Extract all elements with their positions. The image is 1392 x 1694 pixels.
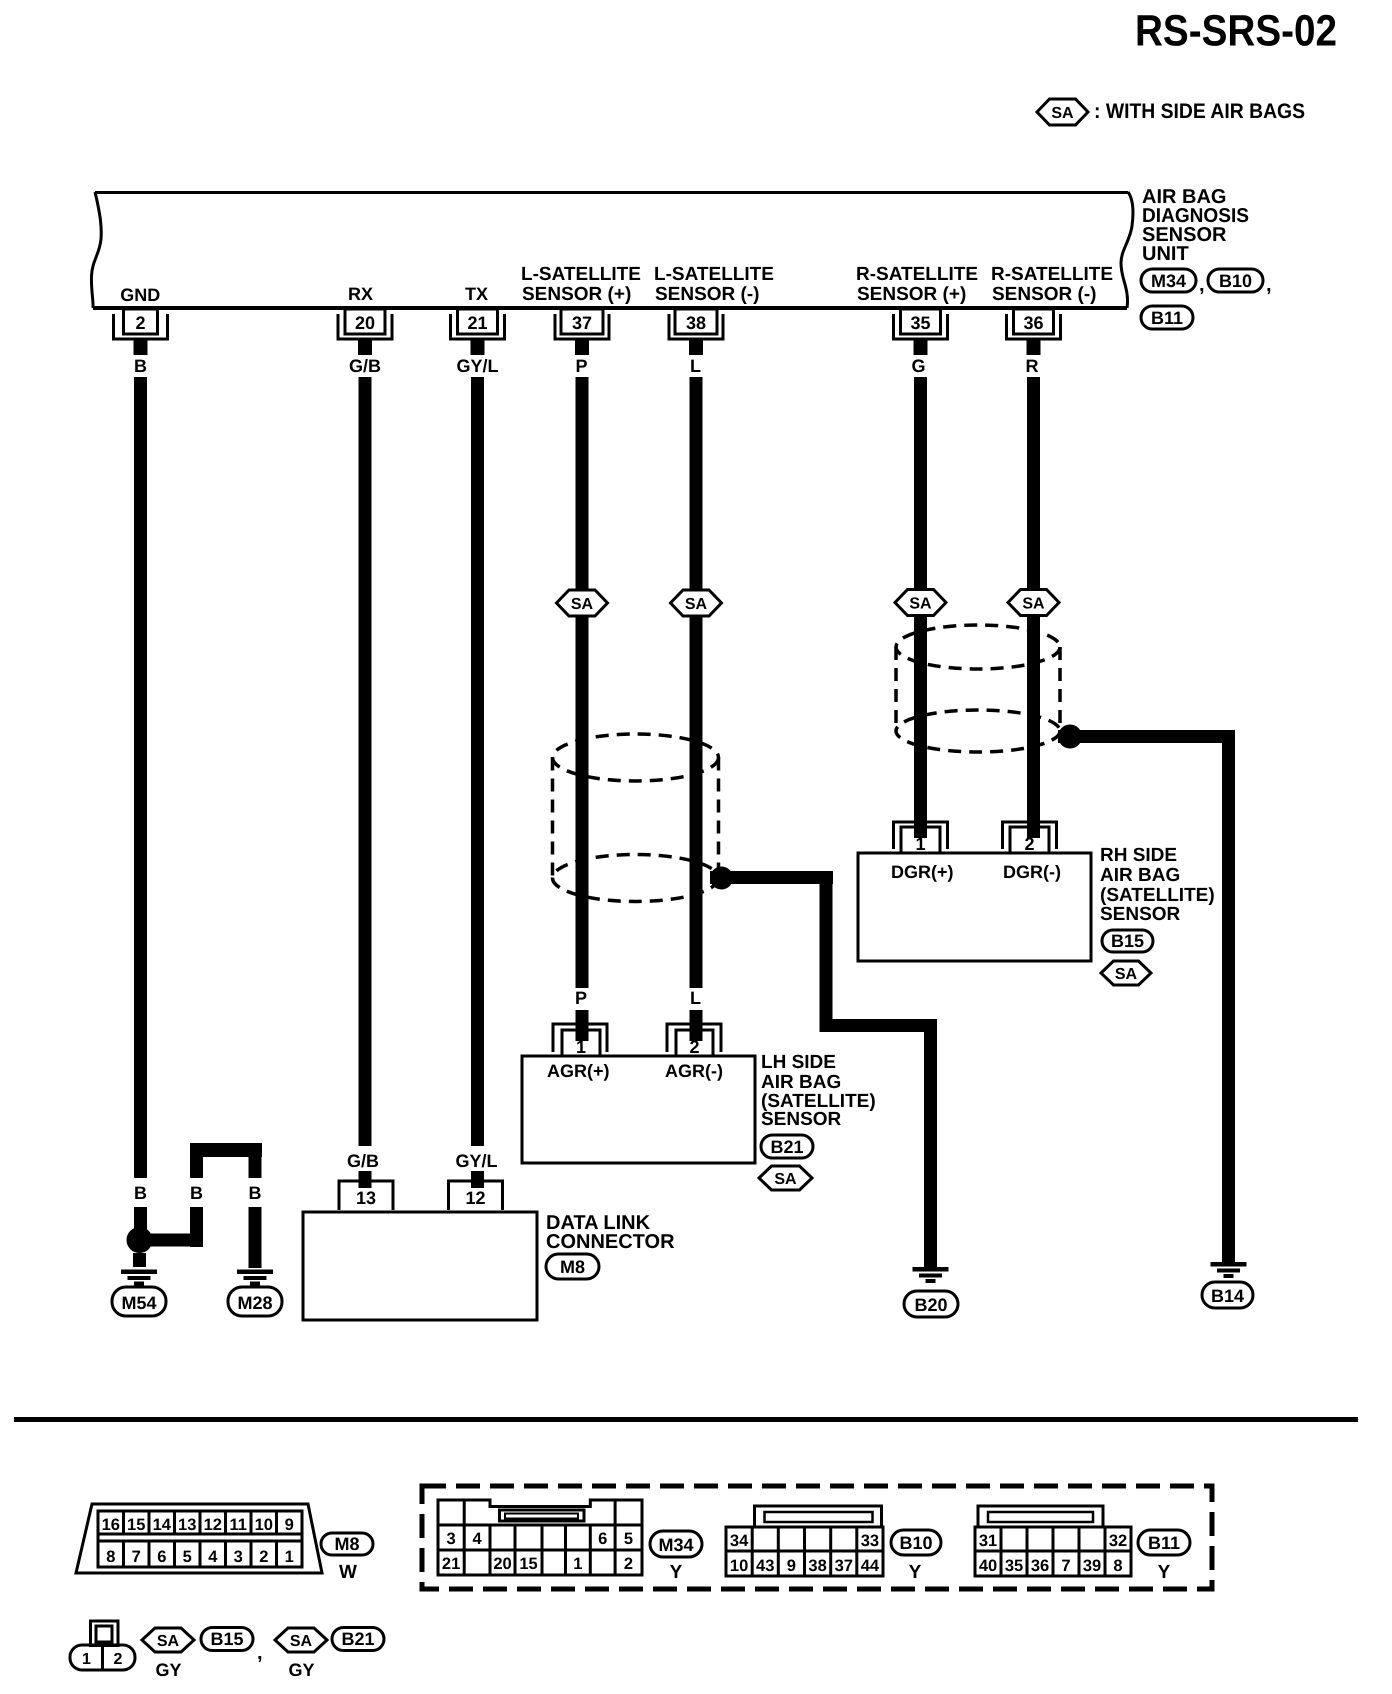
svg-text:32: 32 bbox=[1109, 1532, 1127, 1550]
svg-text:B10: B10 bbox=[1219, 271, 1252, 291]
wire B vertical (GND) bbox=[134, 377, 147, 1178]
pin name L-SATELLITE SENSOR (-) bbox=[654, 264, 774, 305]
svg-text:DGR(+): DGR(+) bbox=[891, 862, 954, 882]
svg-text:35: 35 bbox=[1005, 1557, 1023, 1575]
svg-text:TX: TX bbox=[465, 284, 488, 304]
junction dot on L pair shield bbox=[710, 867, 733, 890]
ground symbol B14 bbox=[1211, 1262, 1247, 1278]
svg-text:R-SATELLITE: R-SATELLITE bbox=[856, 264, 978, 285]
svg-text:5: 5 bbox=[624, 1530, 633, 1548]
ground symbol M54 bbox=[121, 1270, 157, 1286]
svg-text:B: B bbox=[134, 356, 147, 376]
ground ref B14 bbox=[1202, 1282, 1253, 1308]
svg-text:P: P bbox=[575, 988, 587, 1008]
data link connector box bbox=[303, 1212, 537, 1320]
LH sensor name text bbox=[761, 1052, 876, 1130]
svg-text:RX: RX bbox=[348, 284, 373, 304]
terminal pin 38 bbox=[669, 309, 723, 355]
wire B stub below junction bbox=[133, 1253, 146, 1267]
unit box left torn edge bbox=[91, 192, 101, 308]
svg-text:,: , bbox=[1199, 274, 1205, 296]
svg-text:M8: M8 bbox=[334, 1534, 359, 1554]
svg-text:SA: SA bbox=[290, 1633, 313, 1650]
connector ref B10 (bottom) bbox=[891, 1530, 941, 1555]
svg-text:37: 37 bbox=[835, 1557, 853, 1575]
wire B branch horizontal at junction bbox=[139, 1234, 203, 1247]
svg-text:DGR(-): DGR(-) bbox=[1003, 862, 1061, 882]
horizontal divider rule bbox=[14, 1417, 1358, 1422]
dashed group box bbox=[422, 1486, 1212, 1589]
svg-text:GY/L: GY/L bbox=[456, 356, 498, 376]
svg-text:4: 4 bbox=[208, 1548, 218, 1566]
SA symbol on wire G bbox=[895, 590, 946, 616]
svg-text:M34: M34 bbox=[1151, 271, 1186, 291]
connector ref B15 (bottom) bbox=[201, 1628, 253, 1651]
RH pin 1 bbox=[894, 822, 948, 854]
svg-text:AIR BAG: AIR BAG bbox=[761, 1072, 841, 1093]
svg-text:B14: B14 bbox=[1211, 1286, 1244, 1306]
svg-text:Y: Y bbox=[909, 1562, 922, 1583]
svg-text:: WITH SIDE AIR BAGS: : WITH SIDE AIR BAGS bbox=[1094, 100, 1305, 123]
svg-text:8: 8 bbox=[106, 1548, 115, 1566]
LH pin 2 bbox=[667, 1024, 721, 1057]
svg-text:31: 31 bbox=[979, 1532, 997, 1550]
data link connector name bbox=[546, 1212, 675, 1253]
svg-text:SENSOR: SENSOR bbox=[761, 1109, 842, 1130]
unit label AIR BAG DIAGNOSIS SENSOR UNIT bbox=[1142, 186, 1249, 265]
svg-text:B10: B10 bbox=[899, 1533, 932, 1553]
svg-text:2: 2 bbox=[689, 1037, 699, 1057]
svg-text:B15: B15 bbox=[1111, 931, 1144, 951]
svg-text:(SATELLITE): (SATELLITE) bbox=[1100, 885, 1215, 906]
LH pin 1 bbox=[553, 1024, 607, 1057]
pin name R-SATELLITE SENSOR (+) bbox=[856, 264, 978, 305]
data link pin 12 bbox=[449, 1181, 503, 1210]
svg-text:20: 20 bbox=[493, 1555, 511, 1573]
connector B10 face bbox=[726, 1506, 883, 1576]
svg-text:3: 3 bbox=[447, 1530, 456, 1548]
svg-text:M28: M28 bbox=[237, 1293, 272, 1313]
svg-text:GND: GND bbox=[120, 285, 160, 305]
small 2-pin connector face bbox=[70, 1621, 135, 1670]
wire L stub into LH pin 2 bbox=[690, 1010, 703, 1041]
svg-text:1: 1 bbox=[915, 834, 925, 854]
svg-text:G/B: G/B bbox=[347, 1151, 379, 1171]
connector ref B21 bbox=[761, 1135, 813, 1158]
svg-text:21: 21 bbox=[467, 313, 487, 333]
svg-text:SENSOR (+): SENSOR (+) bbox=[857, 284, 966, 305]
connector ref B10 bbox=[1208, 269, 1263, 292]
wire B20 ground leg vertical bbox=[924, 1019, 937, 1267]
connector ref M34 bbox=[1141, 269, 1196, 292]
svg-text:38: 38 bbox=[686, 313, 706, 333]
svg-text:8: 8 bbox=[1113, 1557, 1122, 1575]
SA symbol at LH sensor bbox=[759, 1166, 812, 1190]
svg-text:B: B bbox=[190, 1183, 203, 1203]
svg-text:SA: SA bbox=[1051, 105, 1074, 122]
wire B bridge right leg lower (to M28) bbox=[249, 1207, 262, 1268]
svg-text:L-SATELLITE: L-SATELLITE bbox=[654, 264, 774, 285]
SA symbol on wire L bbox=[671, 590, 722, 616]
svg-text:SA: SA bbox=[571, 596, 594, 613]
svg-text:SENSOR (-): SENSOR (-) bbox=[992, 284, 1097, 305]
RH pin 2 bbox=[1003, 822, 1057, 854]
svg-text:B: B bbox=[249, 1183, 262, 1203]
svg-text:2: 2 bbox=[1024, 834, 1034, 854]
svg-text:M34: M34 bbox=[658, 1535, 693, 1555]
wire G/B vertical (RX) bbox=[359, 377, 372, 1146]
wire P stub into LH pin 1 bbox=[576, 1010, 589, 1041]
wire L vertical (L-satellite -) bbox=[690, 377, 703, 988]
svg-text:AIR BAG: AIR BAG bbox=[1100, 865, 1180, 886]
wire R vertical (R-satellite -) bbox=[1027, 377, 1040, 838]
svg-text:SA: SA bbox=[774, 1171, 797, 1188]
connector ref B21 (bottom) bbox=[332, 1628, 384, 1651]
svg-text:6: 6 bbox=[157, 1548, 166, 1566]
unit box top border bbox=[95, 191, 1128, 194]
wire P vertical (L-satellite +) bbox=[576, 377, 589, 988]
svg-text:AGR(+): AGR(+) bbox=[547, 1061, 610, 1081]
svg-text:B20: B20 bbox=[914, 1295, 947, 1315]
ground symbol B20 bbox=[913, 1267, 949, 1283]
wire B bridge top bar bbox=[190, 1143, 262, 1157]
svg-text:44: 44 bbox=[861, 1557, 880, 1575]
connector M8 face (trapezoid) bbox=[76, 1504, 322, 1573]
unit box right torn edge (brace) bbox=[1121, 192, 1133, 308]
svg-text:36: 36 bbox=[1023, 313, 1043, 333]
wire B bridge right leg upper bbox=[249, 1143, 262, 1178]
svg-text:7: 7 bbox=[132, 1548, 141, 1566]
svg-text:5: 5 bbox=[183, 1548, 192, 1566]
svg-text:39: 39 bbox=[1083, 1557, 1101, 1575]
svg-text:4: 4 bbox=[473, 1530, 483, 1548]
svg-text:9: 9 bbox=[787, 1557, 796, 1575]
svg-text:38: 38 bbox=[808, 1557, 826, 1575]
terminal pin 36 bbox=[1007, 309, 1061, 355]
svg-text:B15: B15 bbox=[210, 1629, 243, 1649]
svg-text:GY: GY bbox=[288, 1660, 314, 1680]
svg-text:2: 2 bbox=[114, 1651, 123, 1668]
wire G vertical (R-satellite +) bbox=[914, 377, 927, 838]
svg-text:20: 20 bbox=[355, 313, 375, 333]
pin name R-SATELLITE SENSOR (-) bbox=[991, 264, 1113, 305]
connector ref B11 bbox=[1141, 306, 1193, 329]
svg-text:Y: Y bbox=[1158, 1562, 1171, 1583]
svg-text:GY: GY bbox=[155, 1660, 181, 1680]
wire branch horizontal to B20 leg bbox=[820, 1019, 938, 1032]
svg-text:SA: SA bbox=[1022, 596, 1045, 613]
svg-text:B21: B21 bbox=[341, 1629, 374, 1649]
svg-text:12: 12 bbox=[465, 1188, 485, 1208]
terminal pin 35 bbox=[894, 309, 948, 355]
svg-text:SENSOR (+): SENSOR (+) bbox=[522, 284, 631, 305]
SA symbol on wire R bbox=[1008, 590, 1059, 616]
svg-text:1: 1 bbox=[285, 1548, 294, 1566]
svg-text:,: , bbox=[1266, 274, 1272, 296]
svg-text:12: 12 bbox=[204, 1516, 222, 1534]
svg-text:RH SIDE: RH SIDE bbox=[1100, 845, 1177, 866]
svg-text:2: 2 bbox=[259, 1548, 268, 1566]
svg-text:L: L bbox=[690, 988, 701, 1008]
connector ref M8 (bottom) bbox=[321, 1533, 373, 1555]
svg-text:1: 1 bbox=[573, 1555, 582, 1573]
svg-text:UNIT: UNIT bbox=[1142, 243, 1189, 265]
svg-text:LH SIDE: LH SIDE bbox=[761, 1052, 836, 1073]
wire G/B stub into pin 13 bbox=[359, 1171, 372, 1188]
svg-text:AGR(-): AGR(-) bbox=[665, 1061, 723, 1081]
svg-text:13: 13 bbox=[178, 1516, 196, 1534]
svg-text:M8: M8 bbox=[560, 1257, 585, 1277]
terminal pin 21 bbox=[451, 309, 505, 355]
ground symbol M28 bbox=[237, 1270, 273, 1286]
svg-text:37: 37 bbox=[572, 313, 592, 333]
svg-text:B11: B11 bbox=[1151, 308, 1183, 328]
junction dot B wire bbox=[127, 1227, 153, 1253]
svg-text:SA: SA bbox=[1115, 966, 1138, 983]
ground ref B20 bbox=[904, 1291, 958, 1317]
svg-text:Y: Y bbox=[670, 1562, 683, 1583]
terminal pin 20 bbox=[338, 309, 392, 355]
connector ref B15 bbox=[1102, 930, 1153, 952]
svg-text:11: 11 bbox=[229, 1516, 246, 1534]
connector M34 face bbox=[438, 1500, 642, 1575]
svg-text:R-SATELLITE: R-SATELLITE bbox=[991, 264, 1113, 285]
svg-text:B: B bbox=[134, 1183, 147, 1203]
svg-text:10: 10 bbox=[255, 1516, 273, 1534]
RH side air bag (satellite) sensor box bbox=[858, 853, 1091, 961]
unit box bottom border bbox=[93, 306, 1127, 310]
svg-text:9: 9 bbox=[285, 1516, 294, 1534]
wire branch from R junction horizontal bbox=[1058, 730, 1235, 743]
svg-text:34: 34 bbox=[730, 1532, 749, 1550]
legend SA symbol bbox=[1037, 99, 1088, 125]
wire B bridge left leg upper bbox=[190, 1143, 203, 1178]
svg-text:36: 36 bbox=[1031, 1557, 1049, 1575]
svg-text:P: P bbox=[575, 356, 587, 376]
SA symbol (bottom left) bbox=[142, 1628, 194, 1652]
svg-text:SA: SA bbox=[157, 1633, 180, 1650]
svg-text:10: 10 bbox=[730, 1557, 748, 1575]
svg-text:L: L bbox=[690, 356, 701, 376]
wire branch vertical x828 bbox=[820, 871, 833, 1032]
svg-text:7: 7 bbox=[1061, 1557, 1070, 1575]
wire branch from L junction horizontal bbox=[710, 871, 833, 884]
svg-text:R: R bbox=[1026, 356, 1039, 376]
ground ref M28 bbox=[228, 1287, 282, 1316]
svg-text:B21: B21 bbox=[770, 1137, 803, 1157]
svg-text:CONNECTOR: CONNECTOR bbox=[546, 1231, 675, 1253]
svg-text:2: 2 bbox=[624, 1555, 633, 1573]
svg-text:L-SATELLITE: L-SATELLITE bbox=[521, 264, 641, 285]
terminal pin 2 bbox=[114, 309, 168, 355]
svg-text:40: 40 bbox=[979, 1557, 997, 1575]
ground ref M54 bbox=[112, 1287, 166, 1316]
svg-text:SENSOR (-): SENSOR (-) bbox=[655, 284, 760, 305]
wire GY/L stub into pin 12 bbox=[471, 1171, 484, 1188]
wire B lower segment to junction bbox=[134, 1207, 147, 1232]
svg-text:B11: B11 bbox=[1148, 1533, 1180, 1553]
connector ref M34 (bottom) bbox=[650, 1531, 702, 1557]
svg-text:M54: M54 bbox=[121, 1293, 156, 1313]
connector B11 face bbox=[975, 1506, 1131, 1576]
svg-text:GY/L: GY/L bbox=[455, 1151, 497, 1171]
SA symbol on wire P bbox=[557, 590, 608, 616]
svg-text:21: 21 bbox=[442, 1555, 460, 1573]
wire B14 ground leg vertical bbox=[1222, 730, 1235, 1262]
svg-text:SENSOR: SENSOR bbox=[1100, 904, 1181, 925]
LH side air bag (satellite) sensor box bbox=[522, 1056, 755, 1163]
wire B bridge left leg lower bbox=[190, 1207, 203, 1247]
svg-text:3: 3 bbox=[234, 1548, 243, 1566]
junction dot on R pair shield bbox=[1058, 725, 1082, 749]
svg-text:2: 2 bbox=[135, 313, 145, 333]
terminal pin 37 bbox=[555, 309, 609, 355]
shield cylinder left pair (dashed) bbox=[553, 734, 719, 902]
svg-text:16: 16 bbox=[102, 1516, 120, 1534]
pin name L-SATELLITE SENSOR (+) bbox=[521, 264, 641, 305]
svg-text:G/B: G/B bbox=[349, 356, 381, 376]
data link pin 13 bbox=[339, 1181, 393, 1210]
svg-text:W: W bbox=[339, 1562, 357, 1583]
svg-text:SA: SA bbox=[685, 596, 708, 613]
connector ref M8 bbox=[546, 1254, 599, 1279]
SA symbol at RH sensor bbox=[1101, 961, 1151, 985]
svg-text:6: 6 bbox=[598, 1530, 607, 1548]
svg-text:15: 15 bbox=[127, 1516, 145, 1534]
svg-text:SA: SA bbox=[909, 596, 932, 613]
RH sensor name text bbox=[1100, 845, 1215, 925]
svg-text:35: 35 bbox=[910, 313, 930, 333]
wire GY/L vertical (TX) bbox=[471, 377, 484, 1146]
svg-text:33: 33 bbox=[861, 1532, 879, 1550]
svg-text:G: G bbox=[911, 356, 925, 376]
svg-text:RS-SRS-02: RS-SRS-02 bbox=[1135, 7, 1337, 56]
connector ref B11 (bottom) bbox=[1138, 1530, 1190, 1555]
svg-text:,: , bbox=[257, 1642, 263, 1664]
svg-text:43: 43 bbox=[756, 1557, 774, 1575]
air bag diagnosis sensor unit box bbox=[91, 192, 1133, 308]
SA symbol (bottom left 2) bbox=[275, 1628, 327, 1652]
svg-text:1: 1 bbox=[82, 1651, 91, 1668]
svg-text:14: 14 bbox=[153, 1516, 172, 1534]
svg-text:15: 15 bbox=[519, 1555, 537, 1573]
shield cylinder right pair (dashed) bbox=[896, 625, 1060, 752]
svg-text:13: 13 bbox=[356, 1188, 376, 1208]
svg-text:1: 1 bbox=[576, 1037, 586, 1057]
